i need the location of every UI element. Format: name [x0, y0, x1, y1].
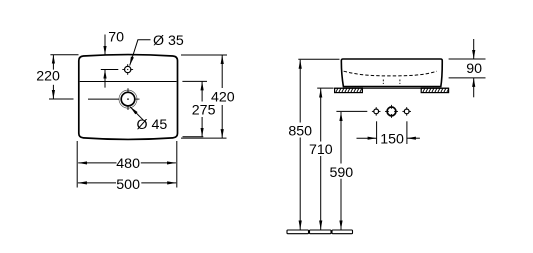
svg-text:590: 590	[330, 165, 354, 181]
svg-text:70: 70	[108, 30, 124, 46]
svg-text:710: 710	[309, 142, 333, 158]
svg-text:Ø 45: Ø 45	[137, 117, 168, 133]
svg-text:480: 480	[116, 156, 140, 172]
svg-text:275: 275	[192, 102, 216, 118]
svg-text:500: 500	[116, 177, 140, 193]
svg-text:90: 90	[466, 61, 482, 77]
svg-text:Ø 35: Ø 35	[153, 33, 184, 49]
svg-text:150: 150	[380, 131, 404, 147]
svg-text:850: 850	[288, 124, 312, 140]
svg-text:220: 220	[36, 69, 60, 85]
